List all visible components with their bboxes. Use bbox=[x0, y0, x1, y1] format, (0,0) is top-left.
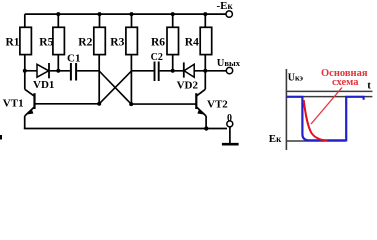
transistor VT2 bbox=[196, 71, 206, 129]
wire VT2 base bbox=[131, 103, 196, 105]
node dot R4 top bbox=[203, 12, 207, 16]
wire R3 top lead bbox=[131, 14, 133, 27]
edge artifact mark bbox=[0, 135, 2, 140]
red discharge curve bbox=[304, 100, 328, 141]
transistor VT1 bbox=[25, 71, 35, 129]
svg-text:R6: R6 bbox=[151, 36, 165, 48]
svg-text:R4: R4 bbox=[185, 36, 199, 48]
wire C2 to VD2 bbox=[160, 70, 183, 72]
wire bottom ground rail bbox=[24, 128, 227, 130]
terminal 0 circle bbox=[227, 121, 233, 127]
wire R1 bottom lead bbox=[24, 55, 26, 71]
node dot VT1 base net corner bbox=[97, 102, 101, 106]
wire R2 bottom lead down to VT1 base net bbox=[98, 55, 100, 104]
resistor R6 bbox=[167, 27, 179, 54]
graph axis t bbox=[286, 90, 372, 92]
svg-text:схема: схема bbox=[332, 77, 359, 88]
diode VD2 bbox=[184, 62, 194, 77]
node dot R5 top bbox=[56, 12, 60, 16]
svg-text:Uвых: Uвых bbox=[217, 58, 241, 69]
graph zero level line bbox=[286, 96, 372, 98]
node dot R1-VD1 junction bbox=[23, 69, 27, 73]
wire VD1 cathode to C1 bbox=[49, 70, 70, 72]
wire ground stem bbox=[229, 127, 231, 143]
wire VD1 anode lead bbox=[25, 70, 37, 72]
svg-text:0: 0 bbox=[227, 113, 232, 124]
node dot R3 top bbox=[130, 12, 134, 16]
svg-text:VT2: VT2 bbox=[207, 98, 228, 110]
wire cross-coupling diagonal R3 node to VT1 base bbox=[99, 71, 131, 104]
svg-text:R1: R1 bbox=[6, 36, 20, 48]
svg-text:C1: C1 bbox=[67, 52, 80, 64]
node dot R4 bottom junction bbox=[203, 69, 207, 73]
svg-text:VD1: VD1 bbox=[33, 79, 54, 91]
terminal -Ek circle bbox=[226, 11, 232, 17]
wire R5 top lead bbox=[57, 14, 59, 27]
svg-text:R5: R5 bbox=[39, 36, 53, 48]
wire R2 top lead bbox=[99, 14, 101, 27]
svg-text:R3: R3 bbox=[110, 36, 124, 48]
node dot VT2 base net corner bbox=[129, 102, 133, 106]
waveform blue pulse bbox=[286, 97, 363, 141]
wire R5 bottom lead bbox=[57, 55, 59, 71]
wire R4 bottom lead bbox=[204, 55, 206, 71]
wire R3 bottom lead down to VT2 base net bbox=[130, 55, 132, 105]
terminal Uvyh circle bbox=[226, 67, 232, 73]
resistor R2 bbox=[94, 27, 106, 54]
svg-text:C2: C2 bbox=[151, 52, 163, 63]
wire VD2 anode to output bbox=[194, 70, 226, 72]
svg-text:VT1: VT1 bbox=[3, 97, 24, 109]
resistor R4 bbox=[200, 27, 212, 54]
wire C1 to R2 net bbox=[77, 70, 99, 72]
svg-text:VD2: VD2 bbox=[177, 80, 199, 92]
diode VD1 bbox=[37, 63, 49, 78]
wire C2 left lead from R3 net bbox=[132, 70, 154, 72]
node dot R6 top bbox=[171, 12, 175, 16]
svg-text:Ек: Ек bbox=[269, 133, 282, 145]
wire R1 top lead bbox=[24, 14, 26, 27]
graph axis Y (Uke) bbox=[285, 69, 287, 150]
svg-text:t: t bbox=[367, 80, 371, 92]
capacitor C1 bbox=[71, 63, 76, 81]
ground bbox=[222, 143, 239, 146]
wire top supply rail bbox=[25, 13, 226, 15]
svg-text:Uкэ: Uкэ bbox=[288, 73, 304, 84]
capacitor C2 bbox=[155, 62, 159, 82]
node dot R6 bottom junction bbox=[171, 69, 175, 73]
wire R6 bottom lead bbox=[172, 55, 174, 71]
node dot R5 bottom junction bbox=[56, 69, 60, 73]
label Osnovnaya shema (red) bbox=[321, 68, 368, 88]
resistor R1 bbox=[20, 27, 32, 54]
svg-text:-Ек: -Ек bbox=[217, 0, 234, 12]
node dot VT2 emitter on rail bbox=[204, 126, 208, 130]
graph Ek level line bbox=[286, 140, 345, 142]
wire R4 top lead bbox=[204, 14, 206, 27]
svg-text:R2: R2 bbox=[78, 36, 92, 48]
resistor R5 bbox=[53, 27, 65, 54]
wire VT1 base bbox=[35, 103, 99, 105]
wire cross-coupling diagonal R2 node to VT2 base bbox=[99, 71, 131, 104]
resistor R3 bbox=[126, 27, 137, 54]
wire R6 top lead bbox=[172, 14, 174, 27]
node dot R2 top bbox=[98, 12, 102, 16]
red leader line bbox=[311, 88, 342, 125]
